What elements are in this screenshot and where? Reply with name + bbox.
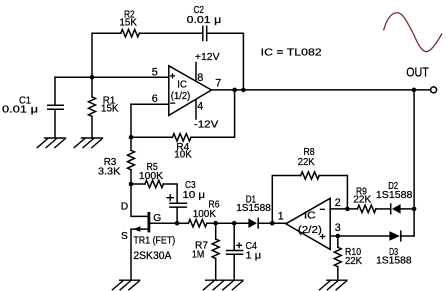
svg-text:IC: IC [177, 79, 187, 90]
svg-text:IC: IC [304, 211, 316, 222]
svg-text:1S1588: 1S1588 [236, 203, 271, 214]
svg-text:22K: 22K [353, 194, 371, 205]
svg-text:2: 2 [335, 197, 341, 209]
svg-text:10 μ: 10 μ [183, 190, 206, 201]
svg-text:0.01 μ: 0.01 μ [187, 15, 222, 26]
svg-text:5: 5 [152, 67, 158, 79]
svg-text:G: G [153, 213, 161, 224]
svg-text:D: D [121, 202, 128, 213]
svg-text:-12V: -12V [194, 119, 219, 130]
svg-text:(2/2): (2/2) [298, 225, 322, 236]
svg-text:100K: 100K [193, 209, 216, 220]
svg-text:15K: 15K [120, 17, 138, 28]
svg-text:1 μ: 1 μ [246, 250, 262, 261]
svg-text:6: 6 [152, 93, 158, 105]
svg-text:100K: 100K [139, 171, 163, 182]
svg-text:S: S [121, 231, 128, 242]
svg-text:OUT: OUT [406, 64, 429, 79]
svg-text:1S1588: 1S1588 [376, 190, 413, 201]
svg-text:1M: 1M [192, 249, 204, 260]
svg-text:15K: 15K [101, 104, 119, 115]
svg-text:IC = TL082: IC = TL082 [261, 48, 322, 59]
svg-text:3: 3 [335, 222, 341, 234]
svg-text:0.01 μ: 0.01 μ [2, 104, 38, 115]
svg-text:22K: 22K [345, 256, 362, 267]
svg-text:(1/2): (1/2) [171, 91, 191, 102]
svg-text:4: 4 [197, 100, 203, 112]
svg-text:1S1588: 1S1588 [376, 255, 412, 266]
svg-text:10K: 10K [174, 150, 192, 161]
svg-text:+12V: +12V [195, 52, 220, 63]
svg-text:3.3K: 3.3K [98, 167, 120, 178]
svg-text:7: 7 [215, 78, 221, 90]
svg-text:22K: 22K [298, 157, 315, 168]
svg-text:1: 1 [278, 210, 284, 222]
svg-text:TR1 (FET): TR1 (FET) [133, 236, 175, 247]
svg-text:8: 8 [197, 72, 203, 84]
svg-text:2SK30A: 2SK30A [133, 250, 172, 262]
